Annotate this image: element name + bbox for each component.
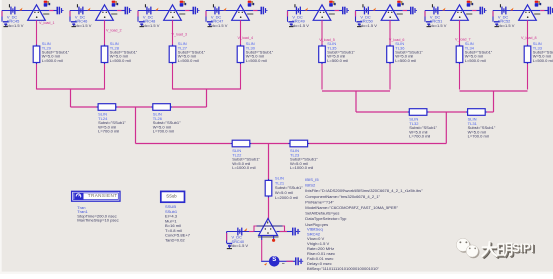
svg-text:SRC51: SRC51 xyxy=(430,19,443,24)
svg-text:ComponentName="tms320c6678_4_2: ComponentName="tms320c6678_4_2_1" xyxy=(305,194,380,199)
svg-text:SetAllDefaults=yes: SetAllDefaults=yes xyxy=(305,211,339,216)
svg-text:SRC52: SRC52 xyxy=(498,19,511,24)
svg-text:TRANSIENT: TRANSIENT xyxy=(88,193,118,198)
svg-text:TL36: TL36 xyxy=(395,45,405,50)
svg-text:IBIS2: IBIS2 xyxy=(305,183,316,188)
svg-text:L=2000.0 mil: L=2000.0 mil xyxy=(275,195,298,200)
svg-text:IbisFile="D:\ADS2009\work\IBIS: IbisFile="D:\ADS2009\work\IBISims\320C66… xyxy=(305,188,423,193)
svg-text:TL35: TL35 xyxy=(327,45,337,50)
svg-text:DataTypeSelector=Typ: DataTypeSelector=Typ xyxy=(305,216,347,221)
svg-text:V_load_8: V_load_8 xyxy=(521,36,537,40)
svg-text:TL28: TL28 xyxy=(110,45,120,50)
svg-text:SRC47: SRC47 xyxy=(211,19,224,24)
svg-text:BitSeq="1110111101010000100001: BitSeq="1110111101010000100001010" xyxy=(307,266,379,271)
svg-text:TanD=0.02: TanD=0.02 xyxy=(165,237,185,242)
svg-text:V_load_3: V_load_3 xyxy=(172,32,188,36)
svg-text:V_load_2: V_load_2 xyxy=(106,28,122,32)
svg-text:V_load_4: V_load_4 xyxy=(238,36,254,40)
svg-text:TL34: TL34 xyxy=(465,45,475,50)
svg-text:SRC48: SRC48 xyxy=(143,19,156,24)
svg-text:PinName="?14": PinName="?14" xyxy=(305,199,334,204)
svg-text:TL33: TL33 xyxy=(533,45,543,50)
svg-text:Vdc=1.5 V: Vdc=1.5 V xyxy=(230,243,249,248)
svg-text:SRC49: SRC49 xyxy=(292,19,305,24)
svg-text:V_load_7: V_load_7 xyxy=(455,37,471,41)
svg-text:SRC50: SRC50 xyxy=(360,19,373,24)
svg-text:SSub: SSub xyxy=(166,194,177,199)
svg-text:IBIS_I5: IBIS_I5 xyxy=(305,177,319,182)
svg-text:L=1000.0 mil: L=1000.0 mil xyxy=(232,165,255,170)
svg-text:SRC45: SRC45 xyxy=(7,19,20,24)
svg-text:L=700.0 mil: L=700.0 mil xyxy=(409,134,430,139)
svg-text:V_load_5: V_load_5 xyxy=(319,38,335,42)
svg-text:L=700.0 mil: L=700.0 mil xyxy=(98,129,119,134)
svg-text:V_load_6: V_load_6 xyxy=(389,38,405,42)
svg-text:SIPI: SIPI xyxy=(512,243,534,255)
svg-text:TL27: TL27 xyxy=(178,45,188,50)
svg-text:TL30: TL30 xyxy=(246,45,256,50)
svg-text:MaxTimeStep=10 psec: MaxTimeStep=10 psec xyxy=(77,218,118,223)
svg-text:L=700.0 mil: L=700.0 mil xyxy=(468,134,489,139)
svg-text:V_load_1: V_load_1 xyxy=(39,21,55,25)
svg-text:S: S xyxy=(272,257,276,263)
svg-text:ModelName="C6COMOP8FZ_FAST_10M: ModelName="C6COMOP8FZ_FAST_10MA_5PER" xyxy=(305,205,398,210)
svg-text:L=1000.0 mil: L=1000.0 mil xyxy=(290,165,313,170)
svg-text:TL29: TL29 xyxy=(42,45,52,50)
svg-text:L=700.0 mil: L=700.0 mil xyxy=(153,129,174,134)
svg-text:SRC46: SRC46 xyxy=(75,19,88,24)
